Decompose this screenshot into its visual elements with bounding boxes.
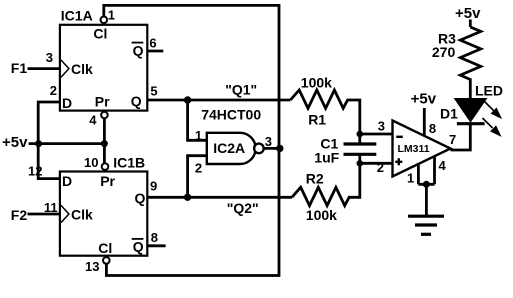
resistor R3 [460,27,481,99]
LED D1 [456,99,486,121]
svg-text:Clk: Clk [71,61,93,77]
svg-text:Clk: Clk [71,207,93,223]
flip-flop IC1B body [60,172,147,256]
svg-text:D: D [62,95,72,111]
wire +5v rail [29,142,105,145]
svg-text:Pr: Pr [100,173,115,189]
svg-text:7: 7 [449,132,456,147]
wire NAND output pin3 [264,147,280,150]
wire Qbar pin6 stub [147,50,163,53]
wire NAND input pin2 [188,156,207,198]
wire D pin12 IC1B [38,144,60,179]
bubble Cl pin13 IC1B [103,257,110,264]
svg-text:Q: Q [133,239,144,255]
wire Q2 line pin9 to R2 [147,196,292,199]
LED D1 cathode bar [457,122,485,125]
svg-text:F1: F1 [11,60,28,76]
bubble Pr pin4 IC1A [101,112,108,119]
svg-text:100k: 100k [301,75,332,91]
wire C1 top to LM311 pin3 [360,133,393,136]
wire F1 to Clk pin3 [28,67,60,70]
svg-text:1: 1 [195,128,202,143]
plus input mark [395,158,402,165]
svg-text:3: 3 [378,119,385,134]
svg-text:11: 11 [44,200,58,215]
svg-text:R2: R2 [306,170,324,186]
svg-text:LM311: LM311 [398,143,430,155]
op-amp comparator U1 LM311 body [393,121,451,177]
svg-text:10: 10 [84,155,98,170]
svg-text:Cl: Cl [98,240,112,256]
svg-text:Q: Q [135,190,146,206]
svg-text:+5v: +5v [2,134,28,151]
wire pin4 down [433,156,436,184]
wire NAND input pin1 [188,100,207,140]
svg-text:1: 1 [108,7,115,22]
svg-text:12: 12 [28,163,42,178]
svg-text:8: 8 [151,230,158,245]
svg-text:74HCT00: 74HCT00 [201,107,261,123]
svg-text:Q: Q [131,93,142,109]
svg-text:F2: F2 [11,207,28,223]
bubble Pr pin10 IC1B [102,163,109,170]
svg-text:13: 13 [85,259,99,274]
wire C1 bottom to LM311 pin2 [360,162,393,165]
junction +5v right [101,140,108,147]
svg-text:9: 9 [150,179,157,194]
wire to ground [425,184,428,216]
svg-text:LED: LED [475,82,503,98]
svg-text:IC1B: IC1B [113,155,145,171]
wire clear loop pin1 to pin13 via NAND output [104,5,279,275]
wire +5v stub to R3 [469,20,472,28]
svg-text:4: 4 [439,158,447,173]
wire F2 to Clk pin11 [28,213,60,216]
bubble NAND output IC2A [254,144,264,154]
svg-text:Pr: Pr [95,93,110,109]
junction NAND output to clear loop [276,145,283,152]
resistor R1 [290,90,359,144]
svg-text:Q: Q [133,43,144,59]
svg-text:270: 270 [432,44,456,60]
minus input mark [396,136,403,138]
svg-text:1: 1 [407,171,414,186]
junction Q2 NAND tap [184,194,191,201]
wire preset chain Pr4 to Pr10 [103,118,106,163]
wire pin1 down [417,163,420,184]
svg-text:1uF: 1uF [314,150,339,166]
svg-text:D: D [62,173,72,189]
wire pin1-pin4 join [418,183,434,186]
wire output pin7 to LED [451,124,471,150]
svg-text:100k: 100k [306,207,337,223]
clock edge triangle IC1A [61,60,69,77]
svg-text:"Q2": "Q2" [227,200,259,216]
svg-text:4: 4 [89,112,97,127]
svg-text:2: 2 [195,161,202,176]
svg-text:D1: D1 [440,105,458,121]
junction +5v left [35,140,42,147]
capacitor C1 bottom plate [344,153,377,156]
svg-text:8: 8 [429,121,436,136]
junction C1 bottom [357,160,364,167]
wire Qbar pin8 stub [147,244,165,247]
svg-text:R1: R1 [308,111,326,127]
ground [408,215,444,218]
bubble Cl pin1 IC1A [101,17,108,24]
wire D pin2 IC1A [38,102,60,144]
svg-text:"Q1": "Q1" [225,82,257,98]
svg-text:5: 5 [150,84,157,99]
junction ground node [423,181,430,188]
svg-text:Cl: Cl [93,26,107,42]
junction C1 top [357,131,364,138]
wire Q1 line pin5 to R1 [147,99,290,102]
junction Q1 NAND tap [184,96,191,103]
clock edge triangle IC1B [61,205,69,222]
LED light arrow 2 [483,118,501,136]
flip-flop IC1A body [60,25,147,111]
svg-text:IC2A: IC2A [213,140,245,156]
capacitor C1 top plate [344,142,377,145]
nand-gate IC2A body [207,133,256,164]
svg-text:3: 3 [46,50,53,65]
svg-text:3: 3 [265,134,272,149]
svg-text:2: 2 [377,160,384,175]
svg-text:+5v: +5v [455,5,481,22]
resistor R2 [292,154,360,205]
svg-text:IC1A: IC1A [61,8,93,24]
LED light arrow 1 [484,101,502,119]
wire +5v to pin8 [423,108,426,136]
svg-text:2: 2 [50,83,57,98]
svg-text:6: 6 [149,36,156,51]
svg-text:+5v: +5v [411,91,437,108]
